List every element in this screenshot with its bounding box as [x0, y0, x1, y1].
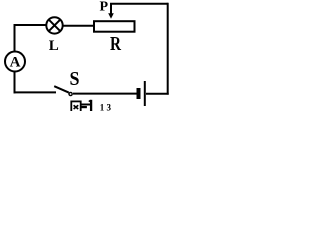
svg-text:A: A: [10, 55, 21, 71]
svg-text:R: R: [110, 33, 121, 55]
svg-text:P: P: [100, 0, 109, 15]
svg-text:S: S: [70, 68, 80, 90]
svg-text:L: L: [49, 38, 59, 54]
svg-text:13: 13: [100, 103, 113, 111]
